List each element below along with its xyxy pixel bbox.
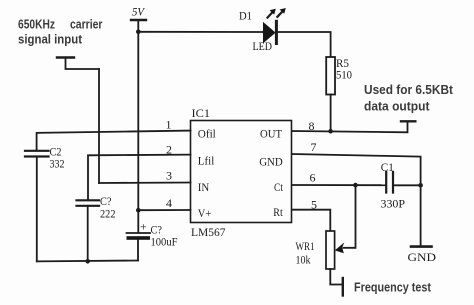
wire: 5V to LED anode bbox=[138, 31, 263, 33]
wire: pin 4 (V+) bbox=[138, 209, 190, 211]
capacitor C? 100uF electrolytic bbox=[127, 220, 178, 249]
wire: R5 to pin 8 wire bbox=[330, 95, 332, 132]
svg-text:LED: LED bbox=[253, 39, 273, 53]
svg-text:Ct: Ct bbox=[274, 180, 284, 194]
wire: pin 3 (IN) bbox=[99, 182, 191, 185]
pin numbers bbox=[166, 118, 318, 212]
svg-text:data output: data output bbox=[364, 99, 430, 114]
svg-text:IN: IN bbox=[198, 180, 210, 194]
capacitor C1 330P bbox=[381, 160, 406, 211]
wire: C1 to pin-7 vertical bbox=[394, 184, 421, 186]
svg-text:GND: GND bbox=[408, 250, 437, 264]
svg-text:Ofil: Ofil bbox=[198, 126, 217, 140]
LED D1 bbox=[239, 8, 286, 53]
svg-text:V+: V+ bbox=[198, 206, 212, 220]
svg-text:510: 510 bbox=[336, 68, 352, 82]
annotation: 650KHz carrier signal input bbox=[18, 16, 103, 46]
potentiometer WR1 10k bbox=[296, 231, 335, 269]
svg-text:6: 6 bbox=[310, 171, 316, 185]
resistor R5 bbox=[326, 56, 352, 95]
wire: wiper branch vertical bbox=[344, 185, 356, 248]
wire: LED cathode to R5 bbox=[278, 32, 331, 57]
svg-text:222: 222 bbox=[100, 207, 116, 221]
svg-text:IC1: IC1 bbox=[192, 106, 211, 120]
ground rail bbox=[37, 260, 138, 263]
svg-text:330P: 330P bbox=[381, 197, 406, 211]
junction: R5 / pin 8 bbox=[328, 129, 333, 134]
svg-text:carrier: carrier bbox=[70, 16, 103, 31]
wire: 100uF to ground rail corner bbox=[137, 240, 139, 261]
svg-text:Frequency test: Frequency test bbox=[354, 280, 432, 295]
junction: pin 6 / wiper branch bbox=[353, 183, 358, 188]
wire: C? 222 to ground rail bbox=[87, 206, 89, 261]
IC U1 box LM567 bbox=[191, 121, 292, 223]
svg-text:4: 4 bbox=[166, 196, 172, 210]
svg-text:OUT: OUT bbox=[260, 126, 283, 140]
svg-text:Lfil: Lfil bbox=[198, 153, 215, 167]
wire: pin 1 (Ofil) to C2 bbox=[37, 131, 191, 150]
svg-text:Rt: Rt bbox=[273, 205, 283, 219]
svg-text:3: 3 bbox=[166, 169, 172, 183]
svg-text:+: + bbox=[140, 220, 147, 234]
wire: pin 2 (Lfil) to C? 222 bbox=[88, 155, 191, 200]
svg-text:332: 332 bbox=[50, 157, 65, 171]
frequency test terminal bar bbox=[342, 278, 344, 296]
junction: C1 / GND vertical bbox=[418, 183, 423, 188]
output terminal bar bbox=[401, 120, 415, 122]
capacitor C2 332 bbox=[25, 145, 65, 171]
svg-text:10k: 10k bbox=[296, 253, 311, 267]
wire: pin 8 (OUT) to output terminal bbox=[292, 122, 408, 132]
junction: 222 / ground rail bbox=[85, 259, 90, 264]
ground symbol GND (right) bbox=[408, 247, 437, 264]
svg-text:8: 8 bbox=[309, 119, 315, 133]
svg-text:Used for 6.5KBt: Used for 6.5KBt bbox=[364, 82, 454, 97]
svg-text:1: 1 bbox=[166, 118, 172, 132]
svg-text:650KHz: 650KHz bbox=[18, 16, 55, 31]
wire: input vertical to pin 3 bbox=[98, 69, 100, 183]
svg-text:LM567: LM567 bbox=[191, 225, 226, 239]
IC pin labels bbox=[198, 126, 284, 220]
svg-text:C1: C1 bbox=[381, 160, 394, 174]
svg-text:5V: 5V bbox=[132, 5, 145, 19]
power terminal 5V bbox=[131, 5, 146, 21]
wire: input terminal down bbox=[66, 58, 100, 69]
wire: WR1 bottom to test terminal bbox=[330, 269, 342, 285]
wire: pin 5 (Rt) to WR1 bbox=[292, 210, 330, 231]
wire: pin 7 (GND) to right vertical bbox=[292, 154, 421, 247]
annotation: Used for 6.5KBt data output bbox=[364, 82, 454, 114]
wire: C2 to ground rail bbox=[36, 157, 38, 262]
svg-text:GND: GND bbox=[259, 154, 283, 168]
svg-text:D1: D1 bbox=[239, 9, 252, 23]
wire: pin 6 (Ct) to C1 bbox=[292, 184, 385, 186]
capacitor C? 222 bbox=[77, 194, 116, 221]
input terminal (650KHz signal) bbox=[57, 56, 74, 58]
svg-text:WR1: WR1 bbox=[296, 239, 315, 253]
svg-text:7: 7 bbox=[311, 140, 317, 154]
wiper arrow of WR1 bbox=[335, 242, 345, 253]
svg-text:100uF: 100uF bbox=[151, 235, 178, 249]
junction: 5V / LED branch bbox=[136, 30, 141, 35]
wire: 5V vertical to V+ bbox=[137, 20, 139, 233]
svg-text:signal input: signal input bbox=[18, 32, 83, 47]
junction: 5V / V+ pin 4 bbox=[136, 208, 141, 213]
